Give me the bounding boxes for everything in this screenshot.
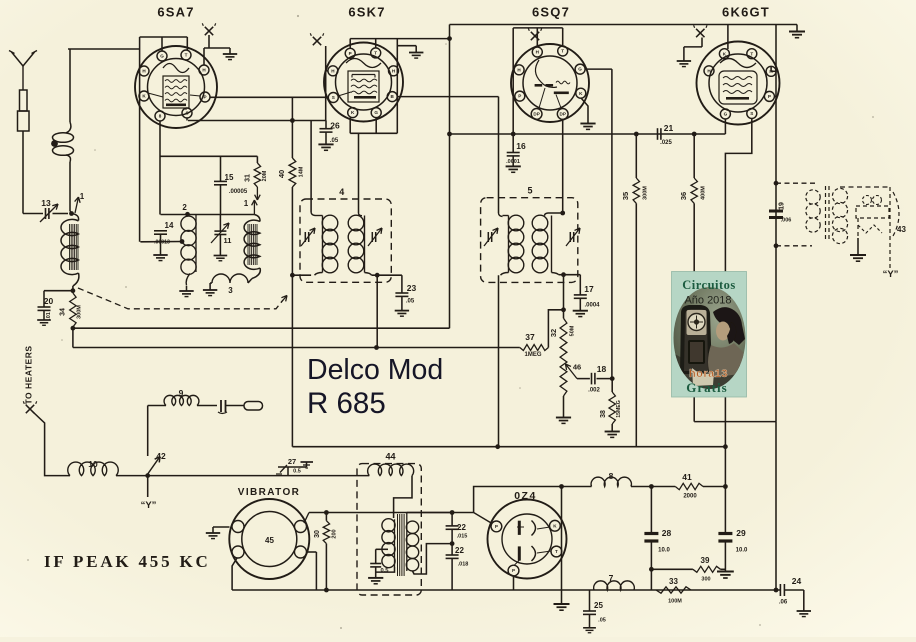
svg-text:DP: DP bbox=[533, 112, 539, 117]
pin DP left bbox=[531, 109, 542, 120]
pin S bbox=[747, 109, 757, 119]
svg-text:G: G bbox=[160, 54, 164, 59]
terminal X heaters bbox=[26, 405, 34, 413]
node r35 top bbox=[634, 132, 639, 137]
svg-text:G: G bbox=[578, 67, 582, 72]
resistor 33 bbox=[656, 587, 691, 593]
xfmr44 primary coil bbox=[382, 519, 395, 532]
capacitor 22 upper bbox=[451, 513, 453, 526]
svg-text:44: 44 bbox=[385, 452, 395, 462]
pin H left bbox=[328, 66, 338, 76]
svg-text:37: 37 bbox=[525, 332, 535, 342]
transformer 44 box bbox=[357, 464, 421, 595]
wire plate 6SA7 bbox=[210, 96, 329, 98]
xfmr44 secondary coil bbox=[406, 521, 418, 533]
svg-text:P: P bbox=[512, 568, 515, 573]
capacitor 11 variable bbox=[219, 215, 221, 232]
svg-text:46: 46 bbox=[573, 363, 581, 372]
pin P left bbox=[515, 91, 525, 101]
tube 6SK7 bbox=[324, 43, 403, 122]
node rail junction bbox=[71, 326, 76, 331]
capacitor 15 bbox=[220, 156, 222, 181]
wire AVC dashed bbox=[78, 288, 283, 309]
svg-text:1MEG: 1MEG bbox=[524, 352, 541, 358]
wire B+ rail bbox=[292, 446, 725, 448]
wire antenna down bbox=[22, 131, 24, 214]
coil 7 bbox=[594, 581, 635, 590]
pin K bbox=[139, 91, 149, 101]
capacitor 23 bbox=[401, 275, 403, 293]
pin T top bbox=[558, 46, 568, 56]
resistor 34 bbox=[70, 293, 76, 327]
svg-text:30: 30 bbox=[314, 530, 321, 538]
svg-text:13: 13 bbox=[41, 198, 51, 208]
ground speaker bbox=[857, 238, 859, 255]
wire vib bottom right bbox=[306, 551, 316, 553]
wire heater rail bbox=[33, 412, 70, 476]
svg-text:24: 24 bbox=[792, 576, 802, 586]
pin H right bbox=[389, 66, 399, 76]
tube 6SA7 bbox=[135, 46, 217, 128]
pin K bbox=[348, 108, 358, 118]
pin K bbox=[719, 49, 729, 59]
svg-text:14: 14 bbox=[165, 221, 174, 230]
pin B bbox=[387, 92, 397, 102]
svg-text:hora13: hora13 bbox=[689, 368, 728, 380]
svg-text:T: T bbox=[555, 549, 558, 554]
capacitor 18 bbox=[577, 378, 590, 380]
svg-text:.018: .018 bbox=[458, 562, 469, 568]
wiper 46 bbox=[566, 364, 578, 379]
resistor 36 bbox=[693, 134, 695, 178]
svg-text:43: 43 bbox=[897, 225, 906, 234]
pin S bbox=[328, 93, 338, 103]
svg-text:10: 10 bbox=[88, 459, 98, 469]
svg-text:IF PEAK 455 KC: IF PEAK 455 KC bbox=[44, 552, 211, 571]
svg-text:15: 15 bbox=[225, 173, 234, 182]
capacitor 25 bbox=[589, 590, 591, 611]
svg-text:14M: 14M bbox=[299, 166, 305, 177]
wire r36 to bottom bbox=[694, 421, 776, 423]
svg-text:9: 9 bbox=[179, 388, 184, 398]
coil 44 bbox=[368, 464, 414, 476]
wire grid tap bbox=[140, 241, 182, 243]
node out xfmr bottom bbox=[774, 243, 779, 248]
node r30 top bbox=[324, 510, 329, 515]
svg-text:5: 5 bbox=[527, 186, 532, 196]
svg-text:.025: .025 bbox=[660, 140, 672, 146]
svg-text:P: P bbox=[349, 51, 352, 56]
svg-text:36: 36 bbox=[679, 192, 688, 200]
node buffer caps mid bbox=[450, 541, 455, 546]
node switch bbox=[145, 473, 150, 478]
svg-text:S: S bbox=[332, 95, 335, 100]
tube 6K6GT bbox=[697, 42, 780, 125]
svg-text:23: 23 bbox=[407, 283, 417, 293]
terminal X 6SQ7 bbox=[531, 32, 539, 40]
capacitor 21 bbox=[657, 128, 659, 140]
wire DP to IF5 bbox=[562, 119, 564, 213]
wire grid staple 6SA7 bbox=[140, 36, 188, 38]
coil 1 antenna secondary with core bbox=[72, 214, 79, 221]
svg-text:R 685: R 685 bbox=[307, 387, 386, 420]
wire cathode 6SQ7 bbox=[581, 98, 588, 124]
svg-text:6SK7: 6SK7 bbox=[348, 5, 385, 20]
svg-text:31: 31 bbox=[245, 174, 252, 182]
pin H left bbox=[139, 66, 149, 76]
wire plate feed bbox=[474, 487, 562, 513]
node feeder-staple bbox=[447, 36, 452, 41]
arrow 1 bbox=[75, 197, 79, 213]
svg-text:19: 19 bbox=[779, 202, 786, 210]
svg-text:20: 20 bbox=[44, 296, 54, 306]
capacitor 28 electrolytic bbox=[650, 487, 652, 533]
svg-text:28: 28 bbox=[662, 528, 672, 538]
svg-text:27: 27 bbox=[288, 457, 296, 466]
tube 6SQ7 bbox=[511, 44, 589, 122]
trimmer IF4 secondary bbox=[371, 232, 373, 242]
pin H top bbox=[532, 47, 542, 57]
tube 6K6GT internals bbox=[720, 59, 756, 68]
pin G bbox=[371, 108, 381, 118]
svg-text:33: 33 bbox=[669, 577, 678, 586]
resistor 35 bbox=[635, 134, 637, 178]
pin K right bbox=[576, 88, 586, 98]
resistor 39 bbox=[651, 568, 693, 570]
wire junction 2 row bbox=[161, 214, 255, 216]
wire pin8 down bbox=[159, 121, 161, 215]
svg-text:11: 11 bbox=[224, 236, 232, 245]
wire diode plate down bbox=[585, 68, 612, 70]
svg-text:TO HEATERS: TO HEATERS bbox=[24, 346, 34, 405]
wire screen staple bbox=[188, 120, 326, 122]
svg-text:T: T bbox=[750, 51, 753, 56]
node IF5 sec top bbox=[560, 211, 565, 216]
arrow node 1 osc bbox=[253, 200, 255, 215]
svg-text:P: P bbox=[495, 524, 498, 529]
capacitor 22 lower bbox=[451, 544, 453, 555]
pin G right bbox=[575, 64, 585, 74]
wire P bottom stub bbox=[513, 576, 515, 590]
svg-text:35: 35 bbox=[621, 192, 630, 200]
svg-text:300: 300 bbox=[701, 577, 710, 583]
terminal X 6SA7 bbox=[205, 27, 213, 35]
trimmer IF4 primary bbox=[304, 232, 306, 242]
node pot top bbox=[561, 307, 566, 312]
svg-text:400M: 400M bbox=[701, 186, 707, 200]
pin 8 bbox=[155, 111, 165, 121]
pin K bbox=[550, 520, 561, 531]
svg-text:50M: 50M bbox=[570, 325, 576, 336]
wire 6SK7 plate to IF5 bbox=[397, 96, 499, 98]
wire X drop to cap26 bbox=[325, 46, 327, 121]
coil 9 bbox=[164, 395, 199, 405]
capacitor 14 bbox=[154, 230, 167, 232]
pin P left bbox=[491, 521, 502, 532]
svg-text:40: 40 bbox=[277, 170, 286, 178]
wire 6SQ7 staple bbox=[513, 27, 563, 29]
svg-text:32: 32 bbox=[549, 329, 558, 337]
svg-text:1: 1 bbox=[244, 199, 249, 208]
switch 42 bbox=[148, 457, 160, 475]
node cap28 top bbox=[649, 484, 654, 489]
coil 2 bbox=[181, 216, 196, 231]
node B+ junction bbox=[290, 118, 295, 123]
svg-text:.002: .002 bbox=[588, 388, 600, 394]
wire ground rail bbox=[72, 328, 74, 347]
svg-text:20M: 20M bbox=[262, 170, 268, 181]
svg-text:Delco Mod: Delco Mod bbox=[307, 354, 443, 386]
wire pot top bbox=[563, 275, 565, 319]
svg-text:.015: .015 bbox=[457, 534, 468, 540]
IF transformer 5 box bbox=[481, 198, 578, 283]
tube 6SA7 internals bbox=[163, 64, 189, 73]
svg-text:38: 38 bbox=[600, 410, 607, 418]
paper specks bbox=[297, 15, 299, 17]
node cathode bias bbox=[723, 484, 728, 489]
ground coil 3 bbox=[203, 289, 217, 291]
svg-text:DP: DP bbox=[560, 112, 566, 117]
pin T bbox=[181, 50, 191, 60]
wire heater stub bbox=[770, 67, 772, 72]
svg-text:Gratis: Gratis bbox=[686, 380, 727, 395]
ground 6K6GT grid bbox=[677, 60, 691, 62]
svg-text:17: 17 bbox=[584, 284, 594, 294]
pin T bbox=[551, 546, 562, 557]
ground coil 2 bbox=[179, 290, 193, 292]
node buffer caps top bbox=[450, 510, 455, 515]
svg-text:P: P bbox=[768, 94, 771, 99]
capacitor 27 and ground bbox=[287, 467, 289, 476]
tube 6SK7 internals bbox=[346, 59, 381, 68]
svg-text:6SA7: 6SA7 bbox=[157, 5, 194, 20]
svg-text:100M: 100M bbox=[668, 599, 682, 605]
capacitor 13 antenna trimmer bbox=[45, 208, 47, 219]
speaker dashed bbox=[840, 186, 890, 188]
wire secondary bottom bbox=[413, 544, 453, 574]
wire plate B+ vertical bbox=[775, 25, 777, 422]
svg-text:.00013: .00013 bbox=[154, 240, 170, 246]
svg-text:25: 25 bbox=[594, 601, 603, 610]
node grid row junction bbox=[511, 132, 516, 137]
svg-text:.05: .05 bbox=[598, 618, 606, 624]
terminal X 6SK7 bbox=[313, 37, 321, 45]
resistor 32 volume bbox=[560, 318, 567, 396]
wire switch up bbox=[147, 406, 149, 457]
svg-text:41: 41 bbox=[682, 472, 692, 482]
node cathode at B+ rail bbox=[723, 444, 728, 449]
wire to grid line bbox=[68, 48, 140, 50]
capacitor 16 bbox=[507, 152, 520, 154]
IF5 secondary coil bbox=[545, 213, 563, 216]
capacitor 26 bbox=[325, 121, 327, 129]
wire grid row bbox=[450, 133, 726, 135]
wire secondary top to OZ4 bbox=[406, 513, 408, 522]
svg-text:T: T bbox=[374, 51, 377, 56]
svg-text:2000: 2000 bbox=[683, 494, 697, 500]
node IF4 sec bottom bbox=[372, 274, 402, 276]
0Z4 internals bbox=[518, 521, 521, 535]
pin H left bbox=[514, 65, 524, 75]
capacitor 17 bbox=[564, 274, 581, 276]
svg-text:200: 200 bbox=[332, 529, 338, 538]
tube 0Z4 bbox=[488, 500, 567, 579]
ground top right bbox=[789, 31, 805, 33]
wire coil44 to primary bbox=[394, 476, 412, 518]
IF4 secondary coil bbox=[358, 133, 360, 213]
pin DP right bbox=[557, 109, 568, 120]
capacitor 19 bbox=[769, 210, 783, 213]
capacitor 29 electrolytic bbox=[724, 487, 726, 533]
resistor 38 bbox=[609, 392, 615, 424]
wire B+ vertical 6SA7 bbox=[291, 97, 293, 158]
ground 6SA7 heater bbox=[223, 53, 237, 55]
svg-text:.0001: .0001 bbox=[506, 159, 520, 165]
capacitor 24 and ground bbox=[779, 584, 781, 596]
svg-text:3: 3 bbox=[228, 286, 233, 295]
wire primary bottom bbox=[376, 567, 395, 572]
capacitor 20 bbox=[44, 290, 73, 292]
pin H right bbox=[766, 66, 776, 76]
svg-text:.00005: .00005 bbox=[229, 189, 248, 195]
node IF4 pri bottom bbox=[290, 273, 295, 278]
svg-text:300M: 300M bbox=[77, 305, 83, 319]
antenna bbox=[12, 52, 24, 66]
wire AVC rail bbox=[73, 327, 450, 329]
svg-text:22: 22 bbox=[457, 523, 466, 532]
node IF4 sec junction bbox=[374, 345, 379, 350]
svg-text:6K6GT: 6K6GT bbox=[722, 5, 770, 20]
svg-text:.05: .05 bbox=[330, 138, 339, 144]
pin G bbox=[157, 51, 167, 61]
pin T bbox=[371, 48, 381, 58]
terminal X 6K6GT bbox=[696, 29, 704, 37]
coil 3 bbox=[212, 274, 248, 283]
node IF5 sec bottom bbox=[561, 272, 566, 277]
svg-text:G: G bbox=[374, 110, 378, 115]
svg-text:8: 8 bbox=[609, 471, 614, 481]
pin P bbox=[764, 91, 774, 101]
pin P stub bbox=[774, 95, 776, 97]
IF transformer 4 box bbox=[300, 199, 391, 282]
coil 10 bbox=[68, 462, 118, 476]
fuse pill bbox=[244, 402, 263, 411]
svg-text:26: 26 bbox=[330, 121, 340, 131]
wire top line bbox=[450, 24, 798, 26]
xfmr44 core bbox=[397, 514, 399, 576]
node feeder-midrail bbox=[447, 132, 452, 137]
svg-text:15MEG: 15MEG bbox=[616, 400, 622, 418]
node r39 left bbox=[649, 567, 654, 572]
node out xfmr top bbox=[774, 181, 779, 186]
vibrator 45 bbox=[229, 499, 309, 579]
IF4 primary coil bbox=[310, 121, 312, 213]
svg-text:2: 2 bbox=[182, 203, 187, 212]
buffer capacitor bbox=[220, 400, 222, 412]
svg-text:300M: 300M bbox=[643, 186, 649, 200]
svg-text:18: 18 bbox=[597, 364, 607, 374]
svg-text:Circuitos: Circuitos bbox=[682, 278, 736, 292]
svg-text:.006: .006 bbox=[781, 218, 792, 224]
svg-text:P: P bbox=[518, 94, 521, 99]
svg-text:6SQ7: 6SQ7 bbox=[532, 5, 570, 20]
ground 6SK7 shell bbox=[397, 45, 416, 47]
wire cathode S path bbox=[725, 119, 751, 447]
svg-text:G: G bbox=[724, 112, 728, 117]
pin H left bbox=[704, 66, 714, 76]
svg-text:VIBRATOR: VIBRATOR bbox=[238, 487, 301, 498]
wire G to grid row bbox=[724, 119, 726, 134]
svg-text:45: 45 bbox=[265, 536, 274, 545]
svg-text:16: 16 bbox=[516, 141, 526, 151]
node IF5 B+ bbox=[495, 444, 500, 449]
pin P bbox=[345, 48, 355, 58]
wire vib to primary bbox=[304, 513, 309, 524]
resistor 41 bbox=[675, 483, 703, 489]
svg-text:S: S bbox=[185, 111, 188, 116]
wire cathode ground bbox=[561, 487, 563, 605]
node bottom rail r36 bbox=[774, 588, 779, 593]
svg-text:29: 29 bbox=[736, 528, 746, 538]
pin P bbox=[200, 92, 210, 102]
output transformer dashed bbox=[776, 182, 818, 184]
IF5 primary coil bbox=[499, 213, 503, 217]
pin S bbox=[182, 108, 192, 118]
resistor 40 bbox=[289, 158, 296, 187]
wire screen feeder bbox=[449, 25, 451, 329]
oscillator coil with core bbox=[254, 215, 260, 222]
ground bias bbox=[717, 570, 734, 572]
svg-text:0.5: 0.5 bbox=[293, 469, 301, 475]
svg-text:39: 39 bbox=[701, 556, 710, 565]
svg-text:34: 34 bbox=[60, 308, 67, 316]
svg-text:4: 4 bbox=[339, 187, 344, 197]
trimmer IF5 primary bbox=[487, 232, 489, 242]
svg-text:.01: .01 bbox=[46, 312, 52, 320]
svg-text:10.0: 10.0 bbox=[736, 548, 748, 554]
svg-text:T: T bbox=[561, 49, 564, 54]
wire grid left drop bbox=[139, 37, 141, 242]
node r36 top bbox=[692, 132, 697, 137]
wire 6SK7 staple bbox=[349, 39, 351, 49]
svg-text:“Y”: “Y” bbox=[883, 269, 899, 280]
coil 8 bbox=[591, 477, 631, 486]
svg-text:.0004: .0004 bbox=[584, 303, 600, 309]
svg-text:22: 22 bbox=[455, 546, 464, 555]
svg-text:21: 21 bbox=[664, 123, 674, 133]
svg-text:8: 8 bbox=[159, 114, 162, 119]
resistor 31 bbox=[256, 156, 258, 163]
speaker cone dashed bbox=[893, 192, 899, 236]
node junction AVC bbox=[71, 288, 76, 293]
trimmer IF5 secondary bbox=[569, 232, 571, 242]
terminal Y switch bbox=[147, 476, 149, 497]
antenna primary coil bbox=[69, 49, 71, 122]
pin T bbox=[747, 49, 757, 59]
svg-text:T: T bbox=[185, 53, 188, 58]
node r38 top bbox=[610, 376, 615, 381]
svg-text:Año 2018: Año 2018 bbox=[684, 295, 731, 307]
svg-text:42: 42 bbox=[156, 451, 166, 461]
capacitor 0.5 buffer bbox=[376, 548, 388, 550]
resistor 37 bbox=[520, 345, 549, 351]
pin H right bbox=[199, 65, 209, 75]
svg-text:0.5: 0.5 bbox=[380, 568, 389, 574]
svg-text:.05: .05 bbox=[406, 299, 415, 305]
tube 6SQ7 internals bbox=[535, 60, 557, 87]
wire vib bottom left bbox=[232, 558, 237, 590]
pin G bbox=[720, 109, 730, 119]
